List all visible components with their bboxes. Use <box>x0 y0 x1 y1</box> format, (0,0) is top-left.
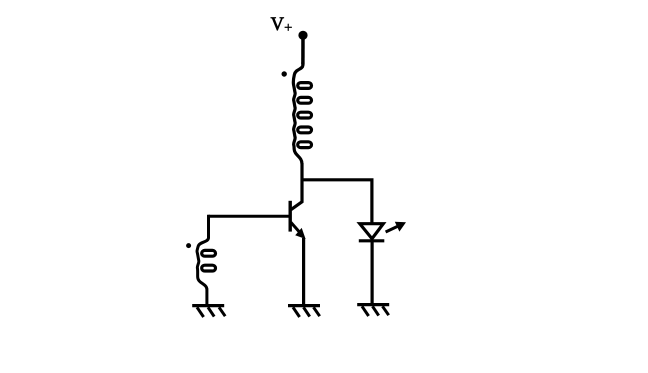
inductor L1 loop 5 <box>298 142 312 148</box>
ground G2 (middle) <box>288 306 320 317</box>
inductor L1 loop 4 <box>298 127 312 133</box>
L1 phasing dot <box>282 71 287 76</box>
wire emitter of Q1 to ground <box>302 238 305 306</box>
wire V+ to inductor L1 <box>301 35 305 64</box>
transistor Q1 base bar <box>289 201 292 232</box>
wire LED cathode to ground <box>371 241 374 305</box>
ground G1 (left) <box>192 306 225 317</box>
node V+ terminal dot <box>298 31 307 40</box>
ground G3 (right) <box>357 305 389 316</box>
inductor L1 loop 2 <box>298 97 312 103</box>
inductor L1 loop 3 <box>298 112 312 118</box>
inductor L2 loop 2 <box>202 265 216 271</box>
inductor L1 loop 1 <box>298 83 312 89</box>
LED D1 triangle <box>360 224 384 239</box>
inductor L1 spine <box>293 62 303 163</box>
LED D1 emission arrow <box>386 226 398 232</box>
transistor Q1 emitter with arrow <box>291 222 301 233</box>
svg-text:+: + <box>284 20 292 36</box>
wire base of Q1 <box>209 215 291 218</box>
LED D1 cathode bar <box>359 239 385 242</box>
wire L1 to collector of Q1 <box>291 163 302 210</box>
svg-text:V: V <box>271 15 285 35</box>
L2 phasing dot <box>186 243 191 248</box>
wire collector node to LED branch <box>301 180 372 224</box>
inductor L2 loop 1 <box>202 250 216 256</box>
wire base branch down to L2 <box>197 215 208 306</box>
